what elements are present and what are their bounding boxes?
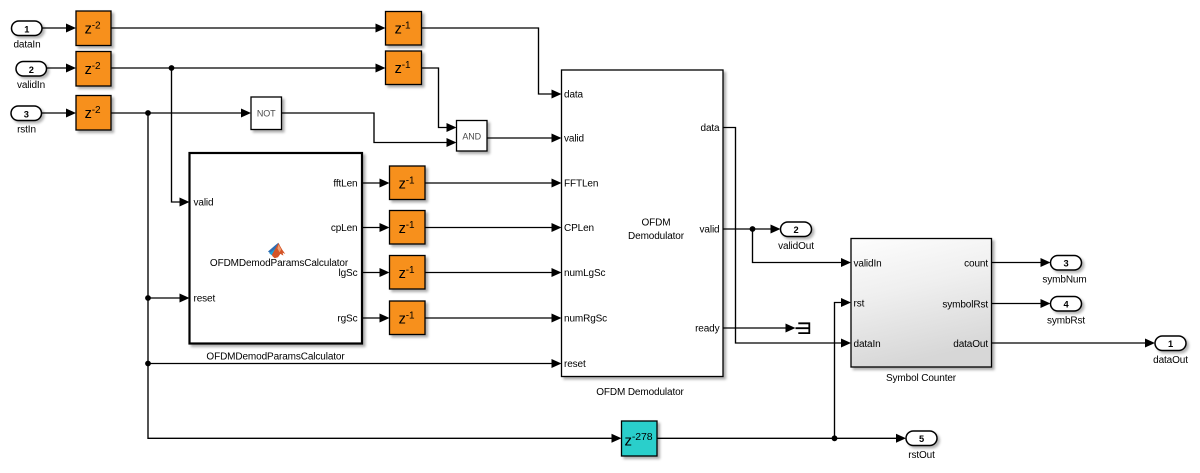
delay D2 z^-2 bbox=[76, 52, 111, 87]
wire D6 out to OFDM Demodulator bbox=[425, 179, 562, 188]
svg-text:validOut: validOut bbox=[778, 241, 814, 252]
wire D1 out to delay D4 bbox=[111, 24, 386, 33]
wire D3 out to NOT input bbox=[111, 109, 251, 118]
wire rstIn to delay D3 bbox=[42, 109, 77, 118]
svg-text:numLgSc: numLgSc bbox=[564, 268, 606, 279]
svg-text:symbolRst: symbolRst bbox=[942, 300, 988, 311]
svg-text:validIn: validIn bbox=[17, 80, 45, 91]
wire OFDM valid out to outport validOut bbox=[723, 225, 781, 234]
outport 3 symbNum bbox=[1042, 256, 1086, 286]
wire Symbol Counter count to outport symbNum bbox=[992, 258, 1051, 267]
svg-text:count: count bbox=[964, 259, 988, 270]
outport 1 dataOut bbox=[1153, 336, 1188, 366]
wire branch valid to Symbol Counter validIn bbox=[753, 229, 852, 267]
svg-text:rgSc: rgSc bbox=[337, 314, 357, 325]
outport 5 rstOut bbox=[906, 431, 937, 461]
inport 2 validIn bbox=[16, 62, 47, 92]
logic block NOT bbox=[251, 97, 282, 130]
delay D8 z^-1 bbox=[390, 256, 426, 290]
svg-text:OFDM Demodulator: OFDM Demodulator bbox=[596, 387, 684, 398]
delay D9 z^-1 bbox=[390, 301, 426, 335]
wire D9 out to OFDM Demodulator bbox=[425, 314, 562, 323]
label Symbol Counter bbox=[886, 373, 957, 384]
svg-text:dataOut: dataOut bbox=[953, 339, 988, 350]
wire D2 out to delay D5 bbox=[111, 64, 386, 73]
wire NOT out to AND input 2 bbox=[282, 113, 457, 147]
wire OFDM data out to Symbol Counter dataIn bbox=[723, 128, 851, 348]
svg-text:rstOut: rstOut bbox=[908, 450, 935, 461]
delay D1 z^-2 bbox=[76, 11, 111, 46]
junction rst rail to OFDM reset bbox=[145, 361, 151, 367]
svg-text:cpLen: cpLen bbox=[331, 223, 358, 234]
wire OFDM ready out to terminator bbox=[723, 324, 796, 333]
junction on rstIn wire bbox=[145, 110, 151, 116]
svg-text:CPLen: CPLen bbox=[564, 223, 594, 234]
svg-text:OFDMDemodParamsCalculator: OFDMDemodParamsCalculator bbox=[206, 352, 345, 363]
wire ParamsCalculator lgSc to delay D8 bbox=[362, 268, 390, 277]
svg-text:1: 1 bbox=[24, 24, 29, 34]
wire dataIn to delay D1 bbox=[42, 24, 76, 33]
svg-text:valid: valid bbox=[194, 198, 214, 209]
outport 2 validOut bbox=[778, 222, 814, 252]
svg-text:valid: valid bbox=[564, 134, 584, 145]
delay D10 z^-278 bbox=[622, 421, 658, 456]
subsystem OFDMDemodParamsCalculator bbox=[190, 153, 363, 344]
svg-text:rstIn: rstIn bbox=[17, 125, 36, 136]
inport 1 dataIn bbox=[12, 21, 43, 51]
junction on validIn wire bbox=[169, 65, 175, 71]
svg-text:symbNum: symbNum bbox=[1042, 275, 1086, 286]
wire Symbol Counter symbolRst to outport symbRst bbox=[992, 299, 1051, 308]
terminator on ready bbox=[796, 322, 810, 334]
wire rst rail to OFDM Demodulator reset input bbox=[148, 359, 562, 368]
svg-text:2: 2 bbox=[793, 225, 798, 235]
svg-text:2: 2 bbox=[29, 65, 34, 75]
svg-text:fftLen: fftLen bbox=[333, 179, 357, 190]
wire branch validIn to ParamsCalculator valid input bbox=[172, 68, 190, 207]
svg-text:numRgSc: numRgSc bbox=[564, 314, 607, 325]
subsystem Symbol Counter bbox=[851, 239, 992, 368]
svg-text:Symbol Counter: Symbol Counter bbox=[886, 373, 957, 384]
svg-text:data: data bbox=[564, 90, 584, 101]
svg-text:rst: rst bbox=[854, 299, 865, 310]
svg-text:3: 3 bbox=[24, 109, 29, 119]
delay D6 z^-1 bbox=[390, 166, 426, 200]
delay D5 z^-1 bbox=[386, 51, 422, 85]
wire ParamsCalculator fftLen to delay D6 bbox=[362, 179, 390, 188]
svg-text:lgSc: lgSc bbox=[339, 268, 358, 279]
delay D3 z^-2 bbox=[76, 96, 111, 131]
label OFDMDemodParamsCalculator bbox=[206, 352, 345, 363]
wire D7 out to OFDM Demodulator bbox=[425, 223, 562, 232]
svg-text:Demodulator: Demodulator bbox=[628, 231, 685, 242]
logic block AND bbox=[457, 121, 488, 152]
svg-text:AND: AND bbox=[462, 132, 481, 142]
svg-text:OFDMDemodParamsCalculator: OFDMDemodParamsCalculator bbox=[210, 258, 349, 269]
svg-text:valid: valid bbox=[700, 225, 720, 236]
wire ParamsCalculator cpLen to delay D7 bbox=[362, 223, 390, 232]
wire D10 out to outport rstOut bbox=[657, 434, 906, 443]
wire D8 out to OFDM Demodulator bbox=[425, 268, 562, 277]
outport 4 symbRst bbox=[1047, 297, 1085, 327]
svg-text:validIn: validIn bbox=[854, 259, 882, 270]
subsystem OFDM Demodulator bbox=[562, 70, 724, 377]
label OFDM Demodulator bbox=[596, 387, 684, 398]
svg-text:5: 5 bbox=[919, 434, 924, 444]
svg-text:data: data bbox=[701, 123, 721, 134]
delay D4 z^-1 bbox=[386, 12, 422, 46]
wire Symbol Counter dataOut to outport dataOut bbox=[992, 339, 1156, 348]
junction rst to Symbol Counter bbox=[832, 435, 838, 441]
svg-text:dataIn: dataIn bbox=[854, 339, 881, 350]
svg-text:NOT: NOT bbox=[257, 109, 276, 119]
wire validIn to delay D2 bbox=[47, 64, 77, 73]
inport 3 rstIn bbox=[11, 106, 42, 136]
svg-text:FFTLen: FFTLen bbox=[564, 179, 598, 190]
delay D7 z^-1 bbox=[390, 211, 426, 245]
svg-text:1: 1 bbox=[1168, 339, 1173, 349]
junction rst rail to ParamsCalculator reset bbox=[145, 295, 151, 301]
wire branch rstIn down the left rail bbox=[148, 113, 622, 443]
wire rst rail to ParamsCalculator reset input bbox=[148, 294, 190, 303]
svg-text:ready: ready bbox=[695, 324, 720, 335]
svg-text:3: 3 bbox=[1063, 259, 1068, 269]
wire D5 out to AND input 1 bbox=[422, 68, 457, 132]
svg-text:dataIn: dataIn bbox=[13, 40, 40, 51]
svg-text:OFDM: OFDM bbox=[642, 218, 671, 229]
svg-text:dataOut: dataOut bbox=[1153, 355, 1188, 366]
svg-text:symbRst: symbRst bbox=[1047, 316, 1085, 327]
svg-text:reset: reset bbox=[194, 294, 216, 305]
wire D4 out to OFDM Demodulator data input bbox=[422, 28, 562, 99]
wire AND out to OFDM Demodulator valid input bbox=[487, 134, 562, 143]
junction valid out bbox=[750, 226, 756, 232]
svg-text:reset: reset bbox=[564, 359, 586, 370]
wire ParamsCalculator rgSc to delay D9 bbox=[362, 314, 390, 323]
wire branch up to Symbol Counter rst input bbox=[835, 298, 852, 438]
